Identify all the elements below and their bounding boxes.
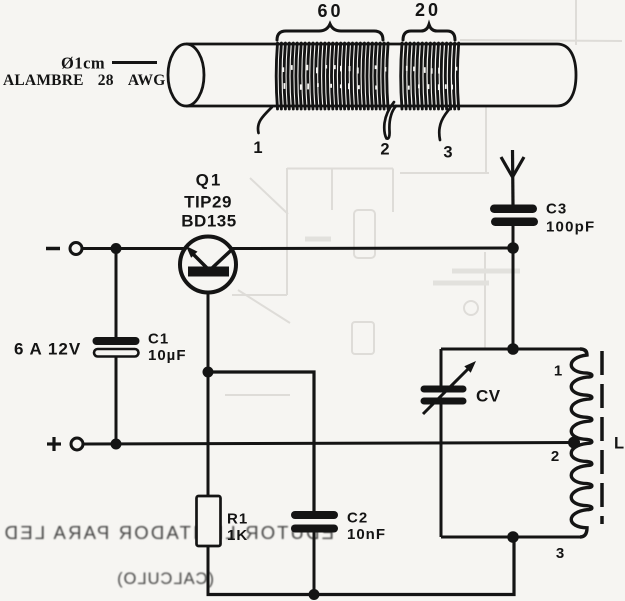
- inductor L: [571, 349, 592, 537]
- capacitor C3: [490, 205, 538, 227]
- svg-text:Ø1cm: Ø1cm: [61, 54, 105, 73]
- svg-text:Q1: Q1: [196, 171, 223, 190]
- capacitor C2: [291, 511, 338, 533]
- wire top rail right: [232, 247, 513, 251]
- wire tank left upper: [440, 349, 443, 386]
- wire C1 top lead: [115, 249, 118, 339]
- node coil tap 2: [568, 437, 580, 449]
- svg-text:1: 1: [554, 363, 562, 380]
- wire C3 to tank: [512, 226, 515, 349]
- svg-text:BD135: BD135: [181, 212, 236, 231]
- svg-text:60: 60: [317, 1, 343, 21]
- wire C2 bottom lead: [313, 533, 316, 595]
- svg-text:1: 1: [253, 139, 262, 157]
- svg-text:C3: C3: [546, 201, 567, 218]
- wire top rail left: [83, 247, 185, 250]
- wire R1 bottom lead: [207, 546, 210, 596]
- svg-text:3: 3: [443, 144, 452, 162]
- wire base lead: [207, 293, 210, 373]
- node tank top: [507, 343, 519, 355]
- coil tap lead 2: [384, 102, 396, 139]
- svg-text:CV: CV: [476, 387, 501, 406]
- wire tank left lower: [440, 405, 443, 538]
- svg-text:2: 2: [380, 141, 389, 159]
- brace over 60-turn section: [277, 24, 383, 40]
- svg-text:6 A 12V: 6 A 12V: [14, 340, 81, 359]
- wire positive rail to coil tap 2: [84, 443, 575, 445]
- svg-text:C2: C2: [347, 510, 368, 527]
- winding section 60 turns: [276, 43, 388, 109]
- svg-text:20: 20: [415, 0, 441, 20]
- brace over 20-turn section: [403, 25, 455, 41]
- wire tank bottom: [441, 536, 581, 539]
- svg-text:10nF: 10nF: [347, 526, 386, 543]
- positive terminal marker: [47, 437, 61, 451]
- svg-text:L: L: [614, 435, 625, 453]
- node positive rail / C1: [111, 439, 122, 450]
- wire feedback to C2: [208, 372, 314, 511]
- svg-text:C1: C1: [148, 331, 169, 348]
- coil former cylinder: [168, 44, 576, 106]
- capacitor C1: [93, 337, 140, 357]
- wire C1 bottom lead: [115, 357, 118, 444]
- negative terminal marker: [46, 247, 60, 251]
- transistor Q1: [180, 237, 236, 293]
- wire R1 top lead: [207, 372, 210, 497]
- svg-text:100pF: 100pF: [546, 219, 595, 236]
- node bottom rail / C2: [309, 589, 320, 600]
- resistor R1: [197, 496, 221, 546]
- node top rail / C1: [111, 243, 122, 254]
- svg-text:(CALCULO): (CALCULO): [116, 570, 214, 588]
- variable capacitor CV: [421, 361, 477, 414]
- svg-text:1K: 1K: [227, 527, 248, 544]
- svg-text:R1: R1: [227, 511, 248, 528]
- wire tank top: [441, 348, 581, 351]
- core dashed line: [600, 351, 604, 524]
- svg-text:10µF: 10µF: [148, 347, 187, 364]
- wire bottom rail: [207, 537, 515, 595]
- antenna: [501, 150, 524, 205]
- node top rail / C3: [507, 242, 519, 254]
- svg-text:EDUTOR LIMITADOR PARA LED: EDUTOR LIMITADOR PARA LED: [2, 522, 334, 543]
- svg-text:ALAMBRE 28 AWG: ALAMBRE 28 AWG: [3, 72, 165, 89]
- positive terminal: [71, 438, 83, 450]
- node tank bottom: [507, 531, 519, 543]
- negative terminal: [70, 243, 82, 255]
- coil tap lead 1: [258, 107, 272, 133]
- node base junction: [203, 367, 214, 378]
- winding section 20 turns: [401, 43, 459, 109]
- svg-text:2: 2: [551, 448, 559, 465]
- coil tap lead 3: [439, 106, 452, 140]
- svg-text:3: 3: [556, 545, 564, 562]
- svg-text:TIP29: TIP29: [184, 193, 232, 212]
- leader line: [112, 61, 157, 64]
